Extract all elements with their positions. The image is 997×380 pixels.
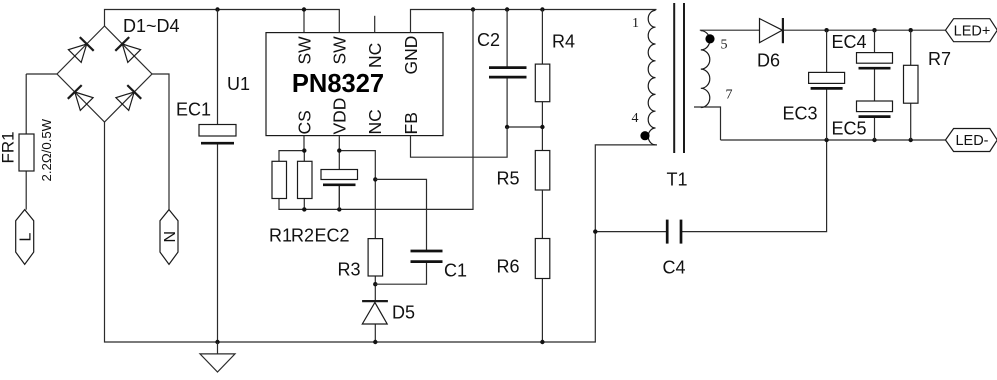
svg-text:1: 1	[632, 16, 639, 31]
wire: output minus rail	[721, 139, 946, 141]
op IC U1 PN8327 body	[266, 33, 443, 136]
svg-text:D6: D6	[757, 51, 780, 71]
svg-text:2.2Ω/0.5W: 2.2Ω/0.5W	[39, 118, 54, 181]
wire: CS pin to R1 R2 tops	[279, 136, 304, 162]
ground	[200, 342, 235, 372]
wire: AC input L to bridge left node	[26, 74, 57, 210]
svg-text:C2: C2	[477, 30, 500, 50]
transformer T1 secondary winding	[701, 31, 710, 108]
terminal N	[160, 210, 178, 265]
svg-text:NC: NC	[365, 109, 385, 134]
svg-text:NC: NC	[365, 43, 385, 68]
wire: sense ground vertical and R1R2EC2 ground bus	[279, 10, 473, 210]
transformer core	[673, 3, 675, 153]
svg-text:5: 5	[721, 37, 728, 52]
svg-text:R4: R4	[552, 32, 575, 52]
svg-text:T1: T1	[667, 170, 688, 190]
capacitor EC4	[857, 53, 893, 69]
resistor R6	[535, 239, 550, 279]
svg-text:C1: C1	[444, 261, 467, 281]
svg-text:EC5: EC5	[832, 119, 867, 139]
diode D3 (bottom-left arm)	[68, 85, 93, 110]
bridge rectifier D1~D4 diamond	[57, 26, 152, 122]
wire: primary bottom rail	[105, 122, 658, 342]
capacitor EC2	[321, 170, 358, 185]
svg-text:N: N	[162, 231, 179, 243]
wire: C4 branch Y-cap	[595, 140, 826, 232]
wire: R3 column	[374, 179, 376, 342]
svg-text:R7: R7	[928, 49, 951, 69]
wire: EC1 branch	[217, 10, 219, 343]
svg-text:LED-: LED-	[955, 133, 988, 149]
wire: NC stub top	[374, 16, 376, 33]
wire: EC3 branch	[826, 30, 828, 140]
svg-text:GND: GND	[401, 36, 421, 75]
diode D4 (bottom-right arm)	[116, 85, 141, 110]
wire: C2 branch	[506, 10, 508, 128]
capacitor EC1	[199, 125, 236, 144]
primary phase dot	[640, 131, 649, 140]
wire: SW pin 1	[303, 10, 305, 33]
svg-text:R1: R1	[269, 226, 292, 246]
svg-text:LED+: LED+	[954, 23, 991, 39]
resistor R1	[272, 161, 287, 198]
svg-text:7: 7	[726, 88, 733, 103]
capacitor C2	[489, 68, 527, 78]
diode D5	[362, 301, 388, 324]
resistor FR1	[19, 134, 34, 171]
svg-text:4: 4	[632, 111, 639, 126]
node: rail/SW1 junction	[302, 7, 306, 11]
svg-text:U1: U1	[227, 74, 250, 94]
capacitor C1	[411, 251, 443, 262]
diode D6	[760, 18, 783, 43]
node: rail/EC1 junction	[215, 7, 219, 11]
svg-text:EC2: EC2	[315, 226, 350, 246]
svg-text:SW: SW	[330, 36, 350, 65]
svg-text:L: L	[18, 233, 35, 242]
svg-text:EC4: EC4	[832, 32, 867, 52]
svg-text:C4: C4	[663, 258, 686, 278]
svg-text:SW: SW	[294, 36, 314, 65]
svg-text:CS: CS	[294, 110, 314, 134]
node: aux rail junctions	[471, 7, 475, 11]
svg-text:R6: R6	[497, 257, 520, 277]
capacitor EC3	[809, 72, 845, 88]
terminal LED-	[946, 129, 997, 152]
wire: DC+ rail from bridge top to SW pins	[105, 10, 340, 33]
svg-text:D1~D4: D1~D4	[123, 16, 180, 36]
wire: FB pin to divider tap	[411, 127, 508, 157]
transformer T1 primary winding	[648, 10, 655, 144]
svg-text:FR1: FR1	[0, 131, 18, 163]
svg-text:EC1: EC1	[176, 100, 211, 120]
wire: R7 branch	[910, 30, 912, 140]
wire: bridge right node to terminal N	[152, 74, 169, 210]
wire: VDD pin to EC2 and R3/C1 branch	[339, 136, 375, 210]
resistor R3	[368, 239, 383, 276]
secondary phase dot	[705, 34, 714, 43]
resistor R4	[535, 64, 550, 102]
wire: EC4 EC5 branch	[874, 30, 876, 140]
terminal L	[16, 210, 34, 265]
wire: R5-R6 link	[541, 190, 543, 342]
wire: R4 branch and junction	[507, 10, 542, 151]
svg-text:VDD: VDD	[330, 98, 350, 135]
wire: secondary top to D6	[700, 29, 760, 31]
svg-text:EC3: EC3	[783, 104, 818, 124]
svg-text:PN8327: PN8327	[292, 70, 384, 98]
svg-text:R2: R2	[291, 226, 314, 246]
svg-text:R5: R5	[497, 169, 520, 189]
wire: secondary bottom to pin 7	[694, 107, 721, 140]
svg-text:FB: FB	[401, 112, 421, 134]
resistor R2	[298, 161, 313, 198]
svg-text:D5: D5	[392, 303, 415, 323]
diode D2 (top-right arm)	[115, 37, 140, 62]
diode D1 (top-left arm)	[68, 37, 93, 62]
resistor R7	[904, 65, 919, 103]
capacitor C4	[667, 220, 681, 244]
resistor R5	[535, 151, 550, 191]
svg-text:R3: R3	[338, 260, 361, 280]
wire: output plus rail	[784, 29, 946, 31]
capacitor EC5	[857, 101, 893, 117]
terminal LED+	[946, 19, 997, 42]
wire: C1 branch	[375, 179, 426, 284]
wire: GND pin to aux rail	[411, 10, 657, 33]
